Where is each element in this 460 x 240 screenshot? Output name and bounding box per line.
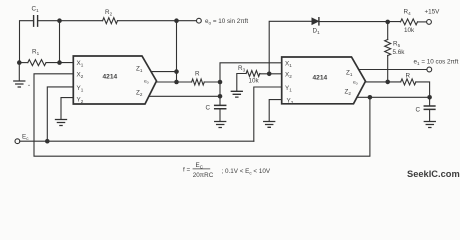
wire: Y2 to ground (61, 98, 73, 119)
junction: integrator node at R (218, 80, 223, 85)
wire: U1 output tip to R (157, 81, 192, 83)
svg-text:C: C (416, 107, 421, 114)
svg-text:eo: eo (353, 80, 358, 85)
svg-text:R: R (195, 70, 200, 77)
wire: top feedback bus y=20.7 left segment to C1 (20, 21, 34, 63)
resistor R3 (246, 71, 260, 77)
wire: U2 Z1 output to e1 terminal (359, 69, 427, 71)
svg-text:5.6k: 5.6k (393, 49, 406, 56)
ground: left input ground (14, 63, 25, 87)
ground: integrator 2 C ground (424, 122, 435, 128)
formula f = Ec / 20 pi RC ; 0.1V < Ec < 10V (183, 162, 271, 179)
terminal: +15V open circle (427, 20, 432, 25)
svg-text:10k: 10k (249, 78, 260, 85)
svg-text:+15V: +15V (425, 8, 441, 15)
wire: ground node to R1 (20, 62, 28, 64)
wire: C1 to R2 (38, 20, 103, 22)
wire: U2 tip output to R (366, 81, 401, 83)
wire: R3 to U2 X2 pin (260, 73, 282, 75)
wire: vertical feedback x=176.5 (176, 21, 178, 82)
wire: X2 input feedback (from Z2 of U2) (34, 74, 370, 156)
capacitor C (integrator 2) (424, 97, 435, 120)
wire: Ec bus (20, 140, 254, 142)
resistor R (integrator 1) (192, 79, 205, 85)
ground: U2 Y2 ground (264, 122, 275, 128)
junction: R5 bias on tip output (385, 80, 390, 85)
junction: Z2 feedback tap (368, 95, 373, 100)
wire: Y1 input from Ec bus (47, 87, 73, 141)
wire: vertical X1 node drop x=59.5 (59, 21, 61, 63)
ground: U1 Y2 ground (56, 120, 67, 126)
resistor R1 (28, 60, 46, 66)
capacitor C1 (34, 16, 38, 27)
terminal: e1 output open circle (427, 67, 432, 72)
junction: U2 X2 node (267, 72, 272, 77)
svg-text:f =: f = (183, 166, 190, 173)
wire: U2 Y2 to ground (269, 100, 282, 121)
wire: R to C node corner (416, 82, 430, 97)
wire: R1 to X1 pin (46, 62, 73, 64)
terminal: e_o output open circle (197, 18, 202, 23)
svg-text:4214: 4214 (313, 75, 328, 82)
multiplier U1 4214 body (73, 56, 156, 104)
svg-text:20πRC: 20πRC (193, 172, 214, 179)
capacitor C (integrator 1) (215, 105, 226, 108)
multiplier U2 4214 body (282, 57, 366, 104)
svg-text:4214: 4214 (103, 74, 118, 81)
wire: Z2 output of U1 (149, 95, 220, 97)
wire: U2 Z2 output (357, 96, 430, 98)
wire: U2 Y1 from Ec bus (254, 87, 282, 141)
svg-text:R: R (406, 72, 411, 79)
junction: C node 2 (427, 95, 432, 100)
svg-text:C: C (206, 105, 211, 112)
diode D1 (312, 18, 319, 25)
wire: R2 to output terminal (118, 20, 197, 22)
svg-text:e1 = 10 cos 2πft: e1 = 10 cos 2πft (414, 59, 459, 67)
ground: R3 ground (231, 91, 242, 97)
junction: Z1/feedback (174, 69, 179, 74)
junction: Z2/C node (218, 94, 223, 99)
wire: Z1 output to feedback node (151, 71, 177, 73)
junction: Ec to U1 Y1 (45, 139, 50, 144)
svg-text:eo = 10 sin 2πft: eo = 10 sin 2πft (205, 18, 248, 26)
resistor R (integrator 2) (401, 79, 416, 85)
wire: R4 to +15V terminal (418, 21, 427, 23)
junction: X1 node top (57, 18, 62, 23)
junction: output feedback tap (174, 18, 179, 23)
svg-text:; 0.1V < Ec < 10V: ; 0.1V < Ec < 10V (222, 168, 271, 176)
svg-text:SeekIC.com: SeekIC.com (407, 169, 460, 179)
resistor R5 (385, 22, 391, 82)
junction: tip/feedback (174, 80, 179, 85)
junction: X1 node (57, 60, 62, 65)
wire: diode branch corner x=269 (269, 21, 312, 74)
svg-text:eo: eo (144, 79, 149, 84)
resistor R4 (401, 19, 418, 25)
ground: integrator 1 C ground (215, 122, 226, 128)
resistor R2 (103, 18, 118, 24)
terminal: Ec input open circle (15, 139, 20, 144)
stray mark (28, 85, 29, 86)
svg-text:10k: 10k (404, 27, 415, 34)
junction: ground node left (17, 60, 22, 65)
wire: R3 left leg to ground (237, 74, 246, 91)
junction: bias node (R4/R5/D1) (385, 20, 390, 25)
wire: C to ground (219, 109, 221, 121)
wire: D1 cathode to bias node (319, 21, 401, 23)
wire: R to integrator node (204, 81, 220, 83)
wire: integrator node vertical x=220 up to U2 X1 (220, 63, 282, 105)
